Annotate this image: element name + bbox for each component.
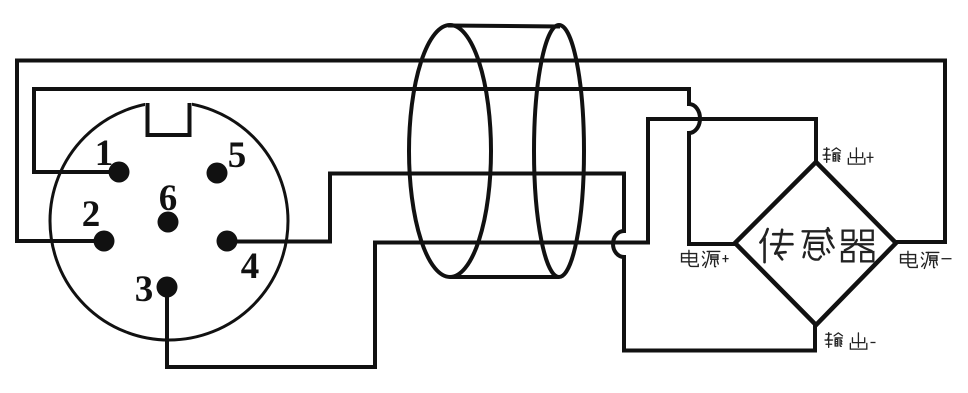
svg-text:2: 2 <box>82 194 101 235</box>
svg-text:1: 1 <box>95 133 114 174</box>
svg-text:4: 4 <box>241 246 260 287</box>
svg-text:6: 6 <box>159 178 178 219</box>
svg-text:5: 5 <box>228 135 247 176</box>
svg-text:3: 3 <box>135 269 154 310</box>
